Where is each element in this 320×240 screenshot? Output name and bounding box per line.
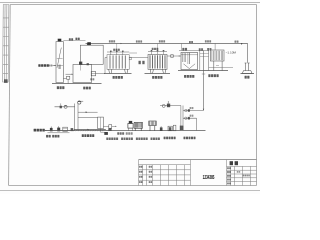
vent line label a	[69, 38, 73, 40]
right labels row	[164, 137, 176, 140]
mixing tank T3	[73, 65, 92, 83]
right dosing line 1	[160, 105, 181, 107]
F2 label	[152, 76, 162, 79]
pipe label group 5	[205, 40, 211, 42]
C2 outlet baseline	[209, 67, 234, 69]
last dosing pump blob	[71, 128, 74, 131]
tower drain fitting	[63, 78, 66, 80]
F2 top header pipe	[148, 51, 167, 53]
F1 to F2 pipe	[129, 57, 148, 59]
vent line from tower	[63, 40, 85, 42]
dosing pump B	[57, 128, 60, 132]
inflow arrow on chain line	[87, 129, 89, 130]
sludge pump P4 with motor	[129, 121, 132, 124]
outfall label	[245, 76, 250, 79]
influent label tail	[49, 65, 53, 67]
thickener drain elbow	[101, 129, 105, 133]
filter press FP1	[134, 122, 142, 131]
F2 ground line	[145, 73, 171, 75]
equalization tank T2	[80, 45, 103, 64]
pipe label group 3	[159, 40, 165, 42]
influent feed line	[53, 64, 56, 66]
conveyor unit	[149, 121, 156, 131]
dosing tank small	[63, 127, 68, 131]
thickener label	[82, 134, 95, 137]
F2 legs	[149, 69, 152, 73]
tower ground line	[52, 83, 102, 85]
DAF unit F1	[107, 55, 129, 70]
F2 header label	[152, 48, 159, 50]
title block table	[139, 160, 257, 186]
F1 top stub	[129, 52, 137, 54]
svg-text:1234385: 1234385	[203, 174, 215, 180]
F1-F2 valve marks	[139, 61, 141, 64]
mixing tank motor	[79, 62, 82, 65]
clarifier header blobs c	[207, 48, 211, 51]
revision strip bottom dark cell	[4, 79, 8, 83]
title block left cell texts	[139, 166, 142, 168]
main pipe arrowheads	[121, 43, 123, 44]
right dosing line 2	[183, 110, 204, 112]
F2 to clarifier pipe	[167, 55, 181, 57]
C2 between-legs tick	[216, 65, 219, 67]
left dosing labels	[46, 135, 51, 138]
chemical line left	[55, 106, 75, 108]
thickener tank T4 walls	[75, 104, 98, 131]
intermediate vessel rungs	[200, 53, 209, 55]
outfall structure	[242, 63, 252, 73]
equalization tank motor	[87, 42, 91, 45]
sludge pipe joint tick	[202, 73, 205, 75]
outfall ground line	[241, 73, 255, 75]
clarifier header line	[179, 50, 209, 52]
tower label	[57, 86, 65, 89]
pump P1 label	[90, 78, 94, 80]
chain line left	[45, 130, 74, 132]
drawing border frame bottom	[9, 185, 257, 187]
transfer pump circle	[170, 54, 174, 58]
C2 feed riser	[214, 44, 216, 51]
right pump b	[168, 126, 172, 131]
clarifier C1	[181, 53, 198, 70]
tower internal mark	[58, 65, 60, 69]
pump P1 discharge riser	[96, 58, 107, 74]
pipe riser into equalization tank	[86, 44, 88, 46]
pipe drop into clarifier C1	[181, 44, 183, 51]
pipe label group 1	[109, 40, 115, 42]
right riser pair	[180, 106, 182, 131]
legend sentence row	[106, 138, 118, 141]
pump P3 to press line	[112, 125, 117, 127]
dosing pump A	[50, 128, 53, 131]
left units baseline	[48, 132, 70, 134]
right small box	[173, 125, 176, 131]
C1 label	[184, 75, 194, 78]
clarifier header blobs a	[182, 48, 187, 51]
title block right cell texts	[227, 167, 231, 169]
revision strip table	[3, 5, 9, 83]
thickener bottom line	[74, 129, 106, 131]
pump P1 suction line	[90, 73, 92, 75]
chemical line riser tick	[60, 103, 62, 105]
sludge pipe label	[199, 48, 203, 50]
sand filter C2	[210, 50, 224, 71]
drawing border frame left skewed	[9, 5, 11, 186]
pipe label group 2	[136, 40, 142, 42]
main top pipe	[86, 43, 248, 45]
pipe drop into F2 header	[157, 44, 159, 50]
drawing border frame right	[256, 5, 258, 186]
tap water feed line	[45, 130, 47, 132]
F1 top header pipe	[107, 51, 129, 53]
drawing border frame top	[10, 4, 256, 6]
title block right header text	[230, 161, 233, 165]
intermediate vessel walls	[199, 50, 201, 70]
filter bank F2	[148, 55, 167, 70]
C1 area label	[208, 74, 218, 77]
tap water label	[34, 129, 45, 132]
mixing tank label	[83, 87, 91, 90]
middle labels row a	[104, 132, 108, 135]
pipe drop into F1 header	[116, 44, 118, 51]
pipe label group 6	[235, 41, 239, 43]
sludge pump P3	[109, 125, 112, 129]
chemical line valve circle	[64, 105, 67, 108]
sludge drop pipe	[203, 51, 205, 111]
page outer scan edge top	[0, 2, 260, 4]
vent circle on thickener	[78, 101, 81, 104]
F1 label	[113, 76, 123, 79]
F1 legs	[108, 69, 111, 73]
right pump a	[160, 127, 163, 130]
svg-text:~1.10M: ~1.10M	[226, 50, 237, 54]
main bottom ground line	[44, 130, 206, 132]
C1 inlet hatch band	[183, 53, 186, 62]
pipe label group 4	[189, 41, 193, 43]
mixing tank top-right fitting	[87, 63, 89, 65]
influent label text	[38, 64, 49, 67]
thickener bottom hatch	[73, 130, 103, 131]
thickener outlet box	[98, 117, 104, 129]
right dosing line 3	[183, 117, 197, 119]
mixing tank inlet arrow	[66, 73, 74, 75]
pump P1	[91, 72, 95, 76]
chemical line valve blob	[60, 106, 62, 109]
F1 header label	[113, 49, 120, 51]
bar screen tower T1	[56, 42, 63, 83]
F1 ground line	[104, 73, 132, 75]
page outer scan edge bottom	[0, 190, 260, 192]
riser bottom unit	[180, 126, 184, 130]
outfall drop pipe	[247, 44, 249, 63]
vent line label b	[75, 38, 79, 40]
clarifier area ground line	[178, 70, 228, 72]
